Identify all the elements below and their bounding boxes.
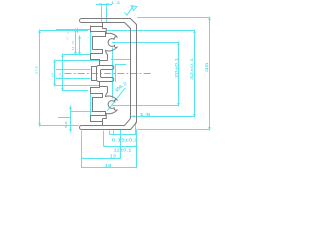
left fin comb lower staircase — [91, 82, 107, 126]
lower screw boss C-port — [106, 87, 118, 119]
groove walls beside center channel — [100, 61, 108, 87]
boss vertical centerline — [112, 48, 114, 99]
diameter label leader — [107, 88, 125, 111]
dimension 20±0.1 boss centers right — [178, 43, 180, 106]
svg-text:18: 18 — [105, 163, 112, 168]
surface finish symbol — [125, 6, 134, 15]
dimension 27.6 overall height left — [39, 31, 41, 126]
svg-text:11±0.1: 11±0.1 — [114, 147, 133, 152]
svg-text:Ø6.2: Ø6.2 — [114, 80, 128, 93]
svg-text:13: 13 — [110, 154, 117, 159]
profile outer rim and inner cavity wall — [80, 19, 137, 130]
svg-text:5.8: 5.8 — [64, 121, 68, 128]
svg-text:1.5: 1.5 — [140, 112, 152, 117]
cavity small extension lines — [115, 64, 117, 82]
bottom dimension 11±0.1 — [104, 146, 137, 148]
bottom dimension 18 — [81, 167, 137, 169]
center tooth around channel back — [92, 67, 97, 81]
svg-text:27.6: 27.6 — [35, 66, 39, 74]
svg-text:6.8: 6.8 — [50, 73, 54, 77]
svg-text:32±0.1: 32±0.1 — [190, 58, 194, 80]
svg-text:6.15±0.1: 6.15±0.1 — [112, 138, 139, 143]
red dash-dot centerline — [65, 73, 153, 75]
bottom dimension 13 — [81, 158, 121, 160]
svg-text:1.3: 1.3 — [111, 1, 120, 5]
dimension 5.8 bottom-left — [70, 107, 72, 132]
svg-text:35: 35 — [204, 61, 209, 73]
dimension 32±0.1 right — [194, 31, 196, 117]
left fin comb upper staircase — [91, 23, 107, 66]
small chained dims top-left cluster — [75, 30, 77, 55]
upper screw boss C-port — [106, 29, 118, 61]
bottom dimension 6.15±0.1 — [109, 134, 136, 136]
svg-text:11.4: 11.4 — [58, 72, 62, 78]
bottom extension lines — [81, 131, 83, 168]
dimension 11.4 left mid2 — [62, 55, 64, 91]
center channel outer C — [96, 66, 112, 82]
channel inner extension lines — [56, 69, 91, 71]
spine right wall segments — [107, 55, 109, 93]
svg-text:1.7: 1.7 — [67, 36, 69, 40]
tooth tip extension line — [90, 25, 92, 55]
svg-text:4.4: 4.4 — [73, 46, 75, 50]
svg-text:0.8: 0.8 — [73, 40, 75, 44]
svg-text:20±0.1: 20±0.1 — [175, 58, 179, 79]
center channel inner c — [101, 69, 113, 77]
dimension 35 right outer — [209, 18, 211, 130]
dimension 1.3 top slot — [101, 3, 103, 21]
dimension 6.8 left mid — [54, 61, 56, 86]
